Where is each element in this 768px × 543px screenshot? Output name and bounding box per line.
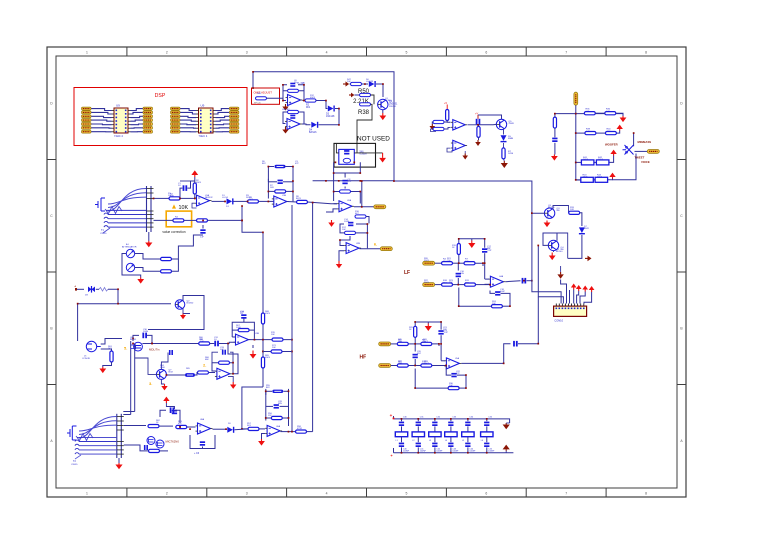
U2B feedback wires <box>283 112 304 124</box>
op-amp U6 <box>265 425 282 436</box>
junction HF <box>414 343 467 376</box>
svg-text:74HC 4: 74HC 4 <box>199 134 208 138</box>
wire to U4 <box>210 343 215 345</box>
resistor R23 <box>148 425 159 428</box>
transistor Q8 <box>544 208 560 218</box>
wire conn pin4 <box>569 290 571 304</box>
orange mark 6 <box>374 242 377 247</box>
ground arrow U2B <box>282 127 288 134</box>
orange mark 2 <box>203 363 206 368</box>
junction trunk <box>325 180 395 182</box>
resistor R12 vertical <box>103 351 113 367</box>
svg-text:10K: 10K <box>200 341 204 343</box>
svg-text:MMB: MMB <box>508 138 514 140</box>
svg-text:MDL/Tin: MDL/Tin <box>149 348 160 352</box>
svg-text:6: 6 <box>485 492 487 496</box>
svg-text:MID/BASS: MID/BASS <box>638 140 652 144</box>
power arrow blockB left <box>551 155 558 161</box>
resistor R39 <box>432 120 444 124</box>
text sw label 1 <box>638 140 652 144</box>
svg-text:3.: 3. <box>149 381 152 386</box>
op-amp U3B <box>344 243 361 254</box>
net label MID out <box>374 205 386 209</box>
junction LF <box>457 262 532 285</box>
text LF <box>404 270 410 276</box>
svg-text:MUR: MUR <box>584 228 589 230</box>
svg-text:DSP: DSP <box>155 93 166 99</box>
net label vertical top <box>574 92 578 105</box>
svg-text:100N: 100N <box>344 221 349 223</box>
resistor R34b <box>397 361 408 367</box>
component reference speckle <box>108 79 589 430</box>
resistor R44 row1a <box>584 109 595 115</box>
transistor Q10 <box>496 119 514 129</box>
junction mic <box>179 426 191 430</box>
capacitor C3 ladder <box>268 180 293 184</box>
capacitor C22 <box>342 179 352 184</box>
net label HF in 1 <box>379 342 391 346</box>
resistor R49 <box>351 82 362 85</box>
wire Q3 emitter <box>183 309 190 314</box>
svg-text:2.: 2. <box>203 363 206 368</box>
svg-text:74HC 4: 74HC 4 <box>114 134 123 138</box>
rail x538 hf <box>538 245 563 303</box>
U2A label <box>297 82 305 85</box>
svg-text:ATTENUATOR: ATTENUATOR <box>122 246 137 249</box>
wire relay out <box>354 152 382 154</box>
wire R1 to U1 <box>180 197 195 199</box>
power arrow below Q7 <box>379 113 386 120</box>
wire U1 minus drop <box>192 203 197 208</box>
wire U3A out to label <box>354 181 374 206</box>
resistor R52 pill <box>166 373 195 377</box>
wire conn mid pin <box>561 280 567 304</box>
resistor R45 row1b <box>605 109 616 115</box>
power arrow conn2 <box>576 285 582 304</box>
junction U4 <box>254 339 264 341</box>
svg-text:1K96: 1K96 <box>508 153 514 155</box>
ground dark arrow right <box>585 256 592 262</box>
U5 feedback box <box>212 352 233 374</box>
op-amp U8 <box>196 423 213 434</box>
relay value text <box>360 151 368 155</box>
text MDL tin <box>149 348 160 352</box>
svg-text:U9: U9 <box>201 104 205 108</box>
filter left drop <box>393 416 395 453</box>
wire R49 row <box>350 84 384 97</box>
svg-text:WOOFER: WOOFER <box>605 143 618 147</box>
capacitor C20 U2A <box>283 83 304 91</box>
wire U4 out <box>249 339 292 341</box>
double rail 2 <box>134 344 136 412</box>
svg-text:49K9: 49K9 <box>310 97 316 99</box>
OMIT red box <box>252 88 280 104</box>
junction dots right <box>554 113 635 181</box>
wire U6 plus in <box>262 434 266 440</box>
warning triangle <box>172 204 176 208</box>
junction U2 cluster <box>303 100 340 126</box>
junction left <box>117 303 119 305</box>
svg-text:100K: 100K <box>236 327 241 329</box>
resistor R17 rail263 b <box>261 357 264 368</box>
svg-text:+: + <box>390 413 393 418</box>
ladder2 rails <box>266 389 289 426</box>
resistor R11 faint <box>99 288 108 292</box>
U4 feedback box <box>232 317 254 339</box>
svg-text:6.: 6. <box>374 242 377 247</box>
power arrow conn4 <box>584 286 594 304</box>
capacitor C2 <box>200 225 206 239</box>
diode D7 vertical <box>579 227 585 234</box>
power arrow LF top <box>468 239 475 248</box>
DSP group box <box>74 88 247 146</box>
capacitor C15 HF <box>438 330 448 335</box>
power arrow relay <box>379 153 386 163</box>
svg-text:2: 2 <box>166 51 168 55</box>
wire LF row1 <box>435 263 483 266</box>
wire relay left stub <box>336 143 338 153</box>
svg-text:U9: U9 <box>116 104 120 108</box>
net label LF in 2 <box>423 283 435 287</box>
capacitor C16 HF mid <box>413 344 418 366</box>
wire U3B out <box>360 248 381 250</box>
wire main loop top <box>253 72 417 181</box>
svg-text:3: 3 <box>246 492 248 496</box>
svg-text:BAS16: BAS16 <box>309 131 317 134</box>
transformer T1 <box>95 189 146 234</box>
power arrow conn1 <box>571 284 577 304</box>
filter unit 6 <box>481 417 495 454</box>
double rail 1 <box>130 341 132 415</box>
capacitor C8 top <box>160 407 180 423</box>
svg-text:C9535: C9535 <box>71 464 78 466</box>
wire ladder2 left entry <box>242 387 263 429</box>
svg-text:75K: 75K <box>449 282 453 284</box>
net label HF in 2 <box>379 364 391 368</box>
op-amp U4 <box>234 334 251 345</box>
svg-text:49K9: 49K9 <box>196 182 202 184</box>
svg-text:1uF: 1uF <box>200 237 204 239</box>
svg-text:100NF: 100NF <box>403 451 410 453</box>
junction q <box>531 212 539 246</box>
resistor R50b row4a <box>581 174 594 182</box>
U2B label <box>282 109 290 111</box>
svg-text:22K: 22K <box>199 339 203 341</box>
dark ground arrow conn <box>557 266 563 279</box>
wire HF row2 <box>391 365 446 367</box>
svg-text:6: 6 <box>485 51 487 55</box>
wire U3B in <box>339 236 350 261</box>
text value correction <box>162 230 185 234</box>
diode D9 vert <box>501 135 514 142</box>
wire J3 row main <box>124 425 146 427</box>
rail x293 <box>0 0 1 1</box>
resistor R38 <box>360 103 371 106</box>
resistor R27 <box>464 259 475 265</box>
rail x313 <box>312 203 314 432</box>
wire U2A out <box>303 101 328 109</box>
wire row3 <box>576 156 614 163</box>
OMIT red box text <box>254 90 273 94</box>
text R38 <box>358 110 370 116</box>
resistor R33b <box>421 339 432 345</box>
wire U10 out <box>461 344 510 364</box>
text 10K <box>179 205 189 211</box>
text NOT USED <box>357 136 390 143</box>
svg-text:U2B: U2B <box>356 243 361 245</box>
resistor R49b row3b <box>596 157 609 165</box>
power arrow jack <box>99 367 106 373</box>
svg-text:U4A: U4A <box>499 275 504 278</box>
resistor R46 row2a <box>585 129 596 135</box>
svg-text:49K9: 49K9 <box>265 313 271 315</box>
resistor R9 <box>161 235 204 261</box>
svg-text:U1B: U1B <box>282 195 287 197</box>
svg-text:10R: 10R <box>570 209 574 211</box>
svg-text:R38: R38 <box>358 110 370 116</box>
svg-text:2: 2 <box>166 492 168 496</box>
resistor R25 <box>176 425 196 428</box>
diode D5 <box>369 81 376 87</box>
transistor Q3 <box>175 300 194 310</box>
diode D3 <box>326 106 335 118</box>
DSP IC U9 net labels <box>82 107 153 133</box>
resistor R28 <box>442 280 453 286</box>
capacitor C17 below U10 <box>446 366 466 388</box>
ground dark U12 <box>462 151 468 160</box>
op-amp U12 <box>447 140 467 152</box>
svg-text:U2A: U2A <box>347 199 352 202</box>
svg-text:10K: 10K <box>272 347 276 349</box>
svg-text:16K2: 16K2 <box>424 363 430 365</box>
relay blue box <box>339 149 355 164</box>
svg-text:VOICE: VOICE <box>641 160 650 164</box>
svg-text:100NF: 100NF <box>420 451 427 453</box>
T1 text <box>100 229 107 235</box>
DSP IC U10 wires <box>180 109 229 132</box>
diode D2 TVS <box>85 286 95 297</box>
svg-text:0.386H: 0.386H <box>360 154 368 156</box>
wire U1 out <box>212 200 226 202</box>
resistor R7 ladder <box>268 190 293 193</box>
wire ladder bottom join <box>334 187 361 204</box>
svg-text:5: 5 <box>405 51 407 55</box>
svg-text:LF: LF <box>404 270 410 276</box>
resistor R5 <box>197 219 243 222</box>
svg-text:21K: 21K <box>443 282 447 284</box>
filter top rail <box>394 419 510 423</box>
resistor R37b bottom <box>415 369 466 390</box>
resistor R14 U4 fb <box>238 329 249 332</box>
filter dark arrow down <box>503 423 510 429</box>
ground dark blockA2 <box>475 140 481 146</box>
wire switch to label <box>635 150 648 152</box>
svg-text:MIC762N0: MIC762N0 <box>166 440 180 444</box>
wire HF row1 <box>391 344 439 346</box>
capacitor C27 U5 fb <box>222 350 226 355</box>
transistor Q6mid <box>156 369 173 379</box>
ground red U3A <box>328 220 334 227</box>
svg-text:100N: 100N <box>143 331 148 333</box>
wire D3 to corner <box>319 109 340 125</box>
svg-text:BD140: BD140 <box>556 251 563 253</box>
capacitor C21 U2B <box>290 115 295 119</box>
filter dark arrow up <box>503 445 510 453</box>
ground arrow U2A <box>282 104 288 111</box>
resistor R15 on out <box>272 338 283 341</box>
filter unit 4 <box>445 417 459 454</box>
svg-text:22P: 22P <box>443 329 447 331</box>
svg-text:10P: 10P <box>220 349 224 351</box>
svg-text:U8A: U8A <box>200 418 205 421</box>
wire U9 minus top <box>485 278 489 280</box>
svg-text:LM8 B2: LM8 B2 <box>282 109 290 111</box>
sheet zone tick marks <box>47 47 686 497</box>
wire y351 link <box>263 351 292 353</box>
svg-text:11K: 11K <box>398 341 402 343</box>
resistor R47 row2b <box>605 129 616 135</box>
wire Q3 collector loop <box>148 296 204 330</box>
transistor Q7 <box>378 99 398 109</box>
wire J1 bottom to ground <box>148 232 150 241</box>
resistor R16 rail263 a <box>261 313 264 324</box>
svg-text:2N5551: 2N5551 <box>389 106 397 108</box>
wire left long <box>78 304 171 341</box>
wire L-drop from U1 area <box>242 206 263 232</box>
power arrow HF top <box>425 322 432 331</box>
svg-text:BC846: BC846 <box>385 100 392 102</box>
junction dots mid <box>333 162 368 241</box>
capacitor C26 mid <box>172 410 177 414</box>
op-amp U1 <box>195 195 212 206</box>
filter unit 3 <box>429 417 443 454</box>
power arrow up mid <box>163 397 174 409</box>
svg-text:22P: 22P <box>487 248 491 250</box>
wire U11 to Q10 <box>478 123 496 125</box>
resistor R21 out <box>296 430 313 433</box>
capacitor C1 <box>180 181 195 198</box>
filter unit 2 <box>412 417 426 454</box>
text +V red <box>475 112 479 116</box>
svg-text:NE5532: NE5532 <box>205 197 213 199</box>
resistor R43 vert <box>553 114 556 138</box>
resistor R51 row4b <box>595 174 608 182</box>
svg-text:100K: 100K <box>160 367 165 369</box>
wire D7 down <box>568 235 582 258</box>
wire row1 end <box>595 113 623 116</box>
dual JFET Q5 <box>147 437 164 449</box>
sheet border inner <box>56 56 677 488</box>
wire orange box row <box>154 219 197 221</box>
wire U5 out steps <box>228 344 238 374</box>
svg-text:68N: 68N <box>278 403 282 405</box>
resistor R2 vertical <box>193 183 196 194</box>
DSP IC U10 net labels <box>171 107 239 133</box>
svg-text:75K: 75K <box>447 260 451 262</box>
DSP IC U9 wires <box>91 109 143 132</box>
svg-text:9K1: 9K1 <box>306 106 311 109</box>
svg-text:10K: 10K <box>449 385 453 387</box>
capacitor C7 ladder2 <box>266 404 289 408</box>
svg-text:U3B: U3B <box>255 333 260 335</box>
ground dark blockA <box>430 124 436 130</box>
JFET Q4 <box>131 342 142 351</box>
NOT USED black box <box>334 143 376 167</box>
wire D1 to R3 <box>234 200 248 202</box>
resistor R40 <box>431 127 445 131</box>
sheet border outer <box>47 47 686 497</box>
capacitor C12 LF mid <box>456 263 461 284</box>
wire OMIT to opamp <box>267 97 284 99</box>
svg-text:47P: 47P <box>348 181 352 183</box>
wire R38 down to relay box <box>357 95 374 153</box>
junction rails <box>262 180 313 352</box>
rail x263 <box>262 232 264 387</box>
svg-text:LL4148: LL4148 <box>366 81 374 83</box>
wire jack wiring <box>101 339 122 352</box>
resistor R32 after U2A <box>305 99 316 109</box>
power arrow up U1 <box>191 170 198 177</box>
svg-text:1: 1 <box>86 492 88 496</box>
text HF <box>360 355 367 361</box>
wire row2 <box>576 131 620 134</box>
resistor R13 <box>199 339 210 345</box>
diode D1 <box>226 198 234 208</box>
svg-text:U5A: U5A <box>455 357 460 360</box>
connector CON10 <box>554 304 587 317</box>
power arrow below J3 <box>115 463 122 469</box>
connector label <box>554 319 563 323</box>
rail x289 <box>291 205 293 432</box>
wire Q6mid emitter <box>161 379 164 384</box>
capacitor C23 <box>348 222 353 226</box>
transformer T2 <box>67 417 116 460</box>
wire J3 to ground <box>118 458 120 463</box>
resistor R6 ladder top <box>268 165 293 168</box>
capacitor C9 mic <box>144 445 148 450</box>
resistor R24 <box>124 445 168 453</box>
svg-text:1K05: 1K05 <box>597 177 603 179</box>
DSP title text <box>155 93 166 99</box>
junction dots bottom <box>132 343 289 430</box>
svg-text:LL414: LL414 <box>222 197 229 199</box>
svg-text:21K5: 21K5 <box>424 260 430 262</box>
wire U3B feedback box <box>340 223 367 248</box>
resistor R38b vert <box>446 110 449 123</box>
capacitor C19 blockA <box>476 115 481 124</box>
resistor R30b bottom <box>459 288 510 308</box>
svg-text:47P: 47P <box>456 373 460 375</box>
jack J2 <box>82 341 101 360</box>
svg-text:49K9: 49K9 <box>265 357 271 359</box>
svg-text:2N49: 2N49 <box>509 123 515 125</box>
text TWEET <box>635 155 645 159</box>
power arrow Q6mid <box>161 384 167 390</box>
filter unit 1 <box>395 417 409 454</box>
capacitor C10 U8 <box>194 441 205 455</box>
wire U9 out <box>506 281 521 282</box>
svg-text:10K: 10K <box>342 229 346 231</box>
transistor Q9 <box>548 240 564 251</box>
resistor R48 row3a <box>581 157 594 165</box>
resistor R18 y351 <box>271 350 282 353</box>
svg-text:10N: 10N <box>460 273 464 275</box>
power arrow U5 <box>228 376 236 389</box>
wire U10 minus <box>441 360 445 362</box>
wire R31 to diode <box>580 213 582 226</box>
LF top rail <box>459 239 485 279</box>
resistor R8 <box>297 200 338 203</box>
